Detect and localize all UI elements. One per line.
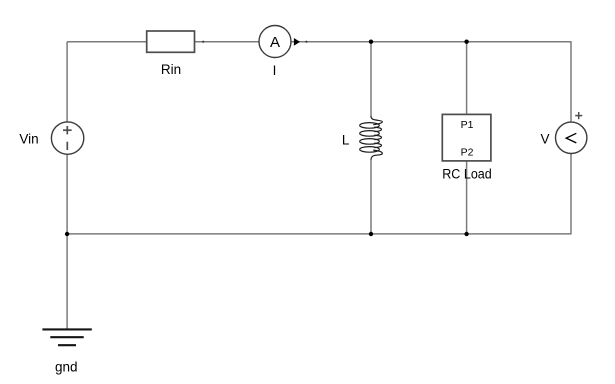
junction bottom-RC xyxy=(464,232,468,236)
label L xyxy=(342,132,350,147)
voltage source Vin xyxy=(51,122,83,154)
voltmeter V xyxy=(556,112,587,154)
ammeter U1 xyxy=(259,26,291,58)
svg-text:P1: P1 xyxy=(461,119,474,131)
label Vin xyxy=(19,131,38,146)
pin dot resistor right xyxy=(202,41,204,43)
svg-text:I: I xyxy=(273,63,277,78)
svg-text:P2: P2 xyxy=(461,147,474,159)
svg-text:RC Load: RC Load xyxy=(442,166,492,181)
svg-text:Rin: Rin xyxy=(161,62,181,77)
label V xyxy=(540,132,549,147)
label I xyxy=(273,63,277,78)
pin dot ammeter right xyxy=(305,41,307,43)
wire inductor branch top xyxy=(370,42,372,117)
label RC Load xyxy=(442,166,492,181)
svg-text:L: L xyxy=(342,132,350,147)
resistor Rin xyxy=(147,31,195,52)
label gnd xyxy=(55,359,78,374)
wire bottom bus xyxy=(67,233,572,235)
wire left vertical (Vin branch) xyxy=(66,42,68,234)
wire top bus xyxy=(67,41,572,43)
RC Load block xyxy=(442,114,491,160)
inductor L coil xyxy=(360,116,383,160)
wire ground stem xyxy=(66,234,68,329)
svg-text:gnd: gnd xyxy=(55,359,78,374)
junction top-inductor xyxy=(369,40,373,44)
junction top-RC xyxy=(464,40,468,44)
wire RC load branch top xyxy=(466,42,468,115)
wire voltmeter branch bottom xyxy=(570,153,572,234)
wire voltmeter branch top xyxy=(570,42,572,123)
svg-text:V: V xyxy=(540,132,549,147)
svg-text:A: A xyxy=(270,34,280,51)
junction bottom-inductor xyxy=(369,232,373,236)
wire RC load branch bottom xyxy=(466,161,468,234)
svg-text:Vin: Vin xyxy=(19,131,38,146)
wire inductor branch bottom xyxy=(370,160,372,234)
junction bottom-Vin xyxy=(65,232,69,236)
ground xyxy=(42,329,91,345)
label Rin xyxy=(161,62,181,77)
ammeter arrow xyxy=(294,38,300,46)
